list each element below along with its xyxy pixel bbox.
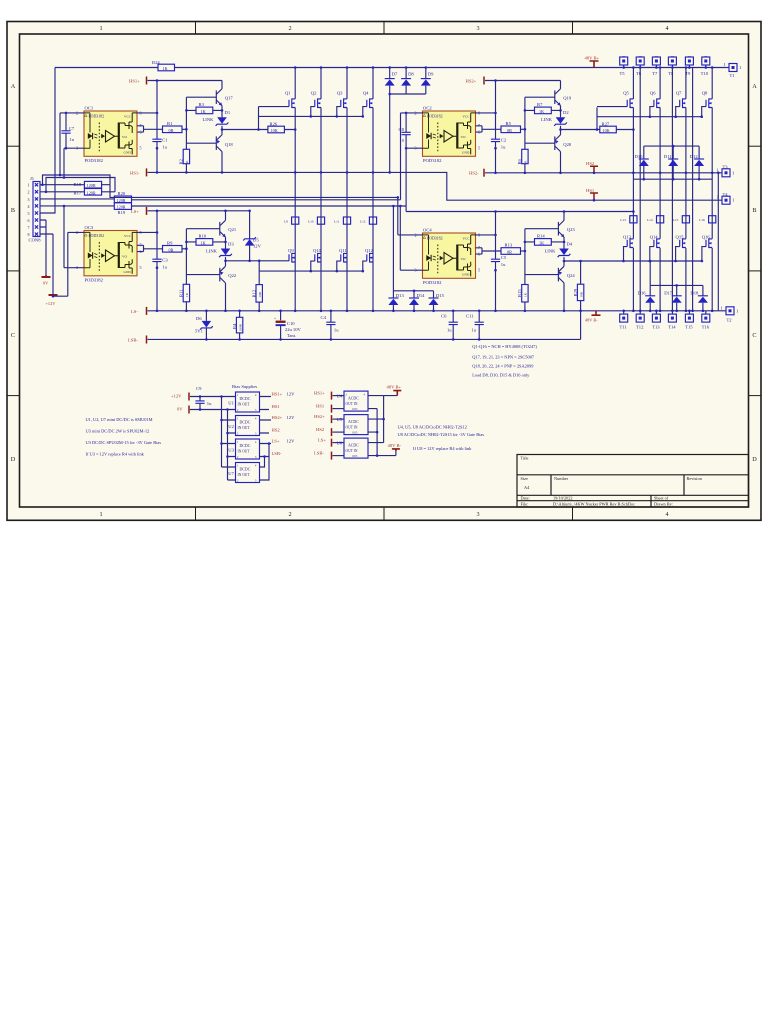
svg-text:R5: R5 xyxy=(506,121,512,126)
svg-text:R15: R15 xyxy=(517,289,522,297)
mosfet Q16 xyxy=(701,235,713,263)
svg-text:T16: T16 xyxy=(702,325,710,330)
svg-text:Q4: Q4 xyxy=(363,91,369,96)
net label HS1 tick right xyxy=(586,188,598,202)
svg-text:R11: R11 xyxy=(179,289,184,297)
svg-text:2: 2 xyxy=(28,190,30,195)
wire U7 outputs looped up xyxy=(260,444,270,481)
svg-text:3: 3 xyxy=(476,25,479,32)
svg-text:A4: A4 xyxy=(524,485,530,490)
testpoint T1 xyxy=(724,62,743,78)
svg-text:U3: U3 xyxy=(228,448,234,453)
svg-text:7: 7 xyxy=(28,225,30,230)
wire Q23 base xyxy=(525,228,559,230)
wire LSB supply rail xyxy=(406,206,633,212)
svg-text:HS2: HS2 xyxy=(272,428,281,433)
svg-text:U4: U4 xyxy=(337,394,343,399)
svg-text:C7: C7 xyxy=(69,126,75,131)
wire acdc B- rail xyxy=(376,409,378,456)
junction D16 riser xyxy=(649,260,652,263)
svg-text:T7: T7 xyxy=(652,71,658,76)
svg-text:120R: 120R xyxy=(87,183,96,188)
mosfet Q9 xyxy=(288,248,295,263)
junction gate node OC2 xyxy=(596,128,599,131)
svg-text:12V: 12V xyxy=(287,438,296,443)
wire LSB- bus xyxy=(148,338,581,340)
net label HS1 acdc in xyxy=(316,404,344,413)
svg-text:1: 1 xyxy=(99,511,102,518)
svg-text:D: D xyxy=(11,456,16,463)
svg-text:R14: R14 xyxy=(537,234,545,239)
svg-text:R24: R24 xyxy=(152,60,160,65)
junction J1 pin1 loop xyxy=(41,183,44,186)
note dcdc modules xyxy=(86,417,162,457)
junction T6 col bottom xyxy=(639,310,642,313)
svg-text:1: 1 xyxy=(99,25,102,32)
junction J1 pin2 loop xyxy=(45,191,48,194)
svg-text:0V: 0V xyxy=(43,281,49,286)
svg-text:0R: 0R xyxy=(169,128,174,133)
svg-text:Title: Title xyxy=(521,456,529,461)
svg-text:C: C xyxy=(752,332,756,339)
mosfet Q15 xyxy=(674,235,686,263)
svg-text:D6: D6 xyxy=(196,316,202,321)
zone labels right xyxy=(752,83,757,463)
svg-text:HS1-: HS1- xyxy=(130,170,140,175)
junction rail at Q13 column xyxy=(632,210,635,213)
wire LS- B- bottom bus xyxy=(148,310,723,312)
ferrite bead L13 xyxy=(620,216,637,223)
svg-text:5: 5 xyxy=(478,268,480,273)
svg-text:HS2+: HS2+ xyxy=(272,415,283,420)
wire HS2+ node xyxy=(485,80,561,82)
junction driver output xyxy=(221,128,224,131)
junction OC1 pin5 xyxy=(156,147,159,150)
svg-text:HS1+: HS1+ xyxy=(272,391,283,396)
svg-text:5: 5 xyxy=(140,146,142,151)
wire HS2- bus xyxy=(485,172,722,174)
svg-text:R26: R26 xyxy=(270,121,278,126)
resistor R11 xyxy=(179,284,190,312)
zone tick left A|B xyxy=(7,145,20,147)
svg-text:T1: T1 xyxy=(730,73,736,78)
mosfet Q8 column xyxy=(711,66,714,312)
svg-text:10K: 10K xyxy=(271,128,278,133)
svg-text:D18: D18 xyxy=(690,291,699,296)
svg-text:Q22: Q22 xyxy=(228,273,237,278)
svg-text:Q21: Q21 xyxy=(228,227,237,232)
svg-text:1K: 1K xyxy=(201,240,206,245)
zone tick top 3|4 xyxy=(572,22,574,35)
junction OC2 pin5 xyxy=(494,147,497,150)
svg-text:OUT IN: OUT IN xyxy=(346,402,358,406)
mosfet Q3 column xyxy=(346,66,349,312)
svg-text:1u: 1u xyxy=(207,401,212,406)
svg-text:R7: R7 xyxy=(537,102,543,107)
wire U1 outputs xyxy=(260,397,272,410)
resistor R1 xyxy=(163,121,183,133)
svg-text:48V B-: 48V B- xyxy=(585,318,598,323)
wire OC4 pin7 pin6 output xyxy=(476,248,502,254)
resistor R15 xyxy=(517,285,528,313)
testpoint T5 xyxy=(620,57,628,76)
junction OC4 pin2 on line xyxy=(397,196,400,199)
svg-text:Q17: Q17 xyxy=(225,96,234,101)
ferrite bead L12 xyxy=(360,217,377,224)
svg-text:C11: C11 xyxy=(466,313,474,318)
svg-text:OC2: OC2 xyxy=(423,105,432,110)
mosfet Q5 xyxy=(597,91,633,108)
power 48V B+ bias xyxy=(387,385,402,396)
capacitor C10 22u tant xyxy=(274,310,302,341)
svg-text:L16: L16 xyxy=(699,218,705,222)
net label HS2 tick right xyxy=(586,161,598,174)
svg-text:CON8: CON8 xyxy=(29,238,42,243)
junction OC4 pin5 xyxy=(494,269,497,272)
svg-text:6: 6 xyxy=(28,218,30,223)
svg-text:R27: R27 xyxy=(602,121,610,126)
resistor R24 xyxy=(152,60,175,71)
svg-text:C4: C4 xyxy=(321,315,327,320)
svg-text:D17: D17 xyxy=(664,291,673,296)
svg-text:C8: C8 xyxy=(399,127,405,132)
mosfet Q6 column xyxy=(659,66,662,312)
svg-text:1815: 1815 xyxy=(352,431,358,434)
svg-text:1u: 1u xyxy=(472,328,477,333)
wire R13 to driver xyxy=(521,250,525,252)
junction R3 left xyxy=(185,109,188,112)
svg-text:Number: Number xyxy=(554,476,569,481)
svg-text:12V: 12V xyxy=(253,244,262,249)
diode D15 xyxy=(429,291,445,312)
svg-text:HS2+: HS2+ xyxy=(314,414,325,419)
svg-text:R17: R17 xyxy=(74,190,82,195)
svg-text:HS2+: HS2+ xyxy=(466,78,477,83)
capacitor C8 xyxy=(399,112,411,150)
svg-text:48V B+: 48V B+ xyxy=(585,56,600,61)
svg-text:12V: 12V xyxy=(287,391,296,396)
svg-text:L9: L9 xyxy=(284,219,288,223)
resistor R5 xyxy=(501,121,521,133)
svg-text:T15: T15 xyxy=(685,325,693,330)
junction D joint xyxy=(388,93,391,96)
svg-text:LSB-: LSB- xyxy=(272,451,282,456)
svg-text:B: B xyxy=(752,207,756,214)
title block column Number|Revision xyxy=(683,475,685,496)
svg-text:1K: 1K xyxy=(201,109,206,114)
junction R7 left xyxy=(524,109,527,112)
ferrite bead L16 xyxy=(699,216,716,223)
wire HS1- phase bus stepping to HS1 right xyxy=(148,172,723,200)
diode D3 LINK xyxy=(206,242,234,267)
svg-text:5V1: 5V1 xyxy=(195,329,204,334)
zener D5 12V xyxy=(243,211,261,262)
junction HS2+ at VCC xyxy=(494,79,497,82)
power 48V B- bias xyxy=(388,443,402,455)
svg-text:L15: L15 xyxy=(673,218,679,222)
wire OC4 pin2 from J1 line xyxy=(398,197,423,235)
junction OC4 pin8 xyxy=(494,234,497,237)
svg-text:Q20: Q20 xyxy=(563,142,572,147)
svg-text:Q14: Q14 xyxy=(650,235,659,240)
svg-text:LSB-: LSB- xyxy=(128,338,138,343)
svg-text:T5: T5 xyxy=(620,71,626,76)
wire OC4 VCC vertical xyxy=(495,212,497,311)
junction OC2 pin8 xyxy=(494,112,497,115)
mosfet Q7 column xyxy=(685,66,688,312)
svg-text:1K: 1K xyxy=(185,292,189,297)
junction HS1+ at VCC xyxy=(156,79,159,82)
svg-text:Q16: Q16 xyxy=(702,235,711,240)
svg-text:2: 2 xyxy=(288,25,291,32)
wire driver OC2 to gate network xyxy=(561,107,702,129)
diode D18 xyxy=(690,285,708,312)
junction B- rail xyxy=(376,431,379,434)
wire HS1+ node xyxy=(148,80,223,82)
sheet outer border frame xyxy=(7,22,761,521)
svg-text:T14: T14 xyxy=(668,325,676,330)
svg-text:Q18: Q18 xyxy=(225,142,234,147)
junction pin3 drop on loop xyxy=(63,176,66,179)
wire top 48V B+ bus xyxy=(55,67,726,69)
capacitor C7 xyxy=(61,112,74,150)
net label HS1+ acdc in xyxy=(314,391,344,400)
svg-text:Q12: Q12 xyxy=(365,248,374,253)
wire driver output to gate bus right xyxy=(564,260,702,262)
svg-text:48V B-: 48V B- xyxy=(388,443,402,448)
svg-text:DCDC: DCDC xyxy=(240,444,251,448)
wire OC3 pin2 to +12V riser xyxy=(53,232,84,296)
mosfet Q14 xyxy=(649,235,661,263)
junction D11 bottom xyxy=(672,178,675,181)
transistor Q21 xyxy=(220,211,237,249)
capacitor C1 xyxy=(152,138,168,150)
svg-text:HS1+: HS1+ xyxy=(314,391,325,396)
net label HS1- xyxy=(130,168,147,176)
dcdc module U2 xyxy=(228,416,259,436)
svg-text:Q19: Q19 xyxy=(563,96,572,101)
svg-text:8: 8 xyxy=(28,232,30,237)
transistor Q22 xyxy=(186,266,237,312)
zone labels left xyxy=(11,83,16,463)
power 48V B- symbol xyxy=(585,311,601,323)
svg-text:L11: L11 xyxy=(334,219,340,223)
svg-text:10K: 10K xyxy=(603,128,610,133)
note acdc modules xyxy=(398,424,485,451)
wire driver base vertical OC4 xyxy=(524,229,526,285)
svg-text:Bias Supplies: Bias Supplies xyxy=(232,384,257,389)
net label HS2+ acdc in xyxy=(314,414,344,423)
junction B- rail bottom xyxy=(376,454,379,457)
zener D6 5V1 xyxy=(195,310,213,341)
junction driver output OC4 xyxy=(563,260,566,263)
wire gate riser and bus OC3 xyxy=(259,261,363,271)
svg-text:Revision: Revision xyxy=(687,476,703,481)
transistor Q23 xyxy=(558,210,575,248)
svg-text:1K: 1K xyxy=(524,292,528,297)
svg-text:C2: C2 xyxy=(501,138,507,143)
svg-text:R12: R12 xyxy=(252,289,257,297)
testpoint T11 xyxy=(620,310,628,330)
svg-text:4: 4 xyxy=(665,25,668,32)
wire R5 to driver xyxy=(521,128,525,130)
junction HS2- at OC2 VCC xyxy=(494,172,497,175)
power +12V symbol xyxy=(46,295,58,306)
svg-text:Q9: Q9 xyxy=(288,248,294,253)
junction D10 bottom xyxy=(643,178,646,181)
junction driver base node OC4 xyxy=(524,250,527,253)
resistor R9 xyxy=(163,240,183,252)
note mosfet types xyxy=(472,344,537,378)
mosfet Q10 xyxy=(310,248,322,272)
wire U8 right pins xyxy=(368,443,396,456)
title block frame xyxy=(517,455,749,508)
capacitor C2 xyxy=(491,138,507,150)
connector J1 xyxy=(28,176,42,243)
svg-text:ACDC: ACDC xyxy=(348,420,359,424)
capacitor C11 xyxy=(466,310,484,341)
wire long column T8 xyxy=(671,68,673,311)
svg-text:+: + xyxy=(274,317,276,321)
svg-text:R19: R19 xyxy=(118,210,126,215)
testpoint T3 xyxy=(717,165,736,177)
svg-text:POD3182: POD3182 xyxy=(85,158,104,163)
svg-text:1815: 1815 xyxy=(352,408,358,411)
svg-text:3: 3 xyxy=(28,197,30,202)
wire J1 pin6 pin7 to 0V xyxy=(40,220,46,275)
wire OC1 pin2 xyxy=(60,113,84,175)
svg-text:10K: 10K xyxy=(258,291,262,297)
svg-text:U1: U1 xyxy=(228,401,234,406)
resistor R19 xyxy=(114,203,131,215)
junction OC1 pin8 xyxy=(156,112,159,115)
svg-text:IN OUT: IN OUT xyxy=(238,403,251,407)
svg-text:120R: 120R xyxy=(117,205,126,210)
wire OC1 pin7 pin6 output xyxy=(137,126,163,132)
svg-text:D16: D16 xyxy=(638,291,647,296)
junction OC4 VCC at bus xyxy=(494,310,497,313)
svg-text:C10: C10 xyxy=(287,321,295,326)
capacitor C6 xyxy=(441,310,458,341)
mosfet Q8 xyxy=(700,91,712,118)
svg-text:Q6: Q6 xyxy=(650,91,656,96)
mosfet Q7 xyxy=(674,91,686,118)
svg-text:1u: 1u xyxy=(162,145,167,150)
svg-text:File:: File: xyxy=(521,502,529,507)
wire driver output to Q9 gate xyxy=(226,260,290,262)
wire D13 feed from return line xyxy=(393,206,433,291)
junction phase4 col top xyxy=(717,172,720,175)
svg-text:Sheet of: Sheet of xyxy=(654,496,669,501)
zone tick bottom 1|2 xyxy=(195,507,197,520)
junction D column on phase xyxy=(388,171,391,174)
wire 0V to U1 xyxy=(190,409,236,411)
mosfet Q13 xyxy=(622,235,633,263)
wire long column T6 xyxy=(639,68,641,311)
svg-text:ACDC: ACDC xyxy=(348,443,359,447)
svg-text:U3 DC/DC SPU02M-15 for -3V Ga: U3 DC/DC SPU02M-15 for -3V Gate Bias xyxy=(86,440,162,445)
svg-text:LS+: LS+ xyxy=(272,438,280,443)
svg-text:C1: C1 xyxy=(162,138,168,143)
junction OC4 pin3 on return xyxy=(399,205,402,208)
dcdc module U1 xyxy=(228,392,259,412)
svg-text:C6: C6 xyxy=(441,313,447,318)
wire left feed J1 pin5 to top bus xyxy=(40,68,55,214)
svg-text:Q24: Q24 xyxy=(567,273,576,278)
title block column Date|Sheet xyxy=(650,495,652,507)
junction rail at OC4 VCC xyxy=(494,210,497,213)
svg-text:Q1: Q1 xyxy=(285,91,291,96)
svg-text:T4: T4 xyxy=(723,192,729,197)
wire OC2 pin7 pin6 output xyxy=(476,126,502,132)
svg-text:D2: D2 xyxy=(563,110,569,115)
ferrite bead L9 xyxy=(284,217,299,224)
ground 0V symbol xyxy=(42,275,51,285)
testpoint T6 xyxy=(636,57,644,76)
opto-coupler OC1 xyxy=(76,105,142,163)
wire OC4 pin3 to return line xyxy=(400,206,422,270)
acdc module U8 xyxy=(337,438,369,458)
wire D7-D9 joint to phase xyxy=(390,94,426,172)
junction pin2 drop on loop xyxy=(59,174,62,177)
mosfet Q4 column xyxy=(372,66,375,312)
svg-text:1n: 1n xyxy=(69,137,74,142)
svg-text:HS1+: HS1+ xyxy=(129,78,140,83)
svg-text:D:\Altium\..\4KW Nucker PWR Re: D:\Altium\..\4KW Nucker PWR Rev B.SchDoc xyxy=(553,502,635,507)
wire OC3 pin3 to return line xyxy=(64,206,84,268)
svg-text:2: 2 xyxy=(288,511,291,518)
svg-text:B: B xyxy=(11,207,15,214)
diode D9 xyxy=(421,66,434,94)
diode D1 LINK xyxy=(203,110,231,135)
resistor R13 xyxy=(501,243,521,255)
zone tick right A|B xyxy=(749,145,762,147)
svg-text:OC1: OC1 xyxy=(85,105,94,110)
svg-text:T2: T2 xyxy=(727,318,733,323)
opto-coupler OC3 xyxy=(76,225,142,283)
mosfet Q4 xyxy=(362,91,374,118)
wire OC3 pin7 pin6 output xyxy=(137,245,163,251)
wire U3 outputs xyxy=(260,444,272,457)
transistor Q24 xyxy=(525,266,576,312)
svg-text:DCDC: DCDC xyxy=(240,468,251,472)
diode D8 xyxy=(401,66,414,94)
wire J1 pin3 + net line to OC2 xyxy=(40,198,401,201)
svg-text:D14: D14 xyxy=(417,293,426,298)
svg-text:Q5: Q5 xyxy=(623,91,629,96)
svg-text:R20: R20 xyxy=(118,191,126,196)
svg-text:D3: D3 xyxy=(228,242,234,247)
svg-text:HS1: HS1 xyxy=(586,188,595,193)
svg-text:R6: R6 xyxy=(517,158,522,164)
testpoint T9 xyxy=(685,57,693,76)
wire OC4 pin8 xyxy=(476,234,496,236)
net label LSB- xyxy=(128,336,147,344)
svg-text:5: 5 xyxy=(140,265,142,270)
testpoint T15 xyxy=(685,310,693,330)
wire Q21 base xyxy=(186,228,219,230)
svg-text:5: 5 xyxy=(478,146,480,151)
svg-text:If U8 = 12V replace R4 with li: If U8 = 12V replace R4 with link xyxy=(413,446,472,451)
svg-text:U3 mini DC/DC 2W is SPU02M-12: U3 mini DC/DC 2W is SPU02M-12 xyxy=(86,429,150,434)
svg-text:Q11: Q11 xyxy=(339,248,347,253)
wire lower connector right bank xyxy=(633,178,712,180)
net label HS2 acdc in xyxy=(316,427,344,436)
testpoint T7 xyxy=(652,57,660,76)
testpoint T8 xyxy=(668,57,676,76)
transistor Q18 xyxy=(186,135,233,174)
wire OC2 VCC vertical xyxy=(495,81,497,173)
